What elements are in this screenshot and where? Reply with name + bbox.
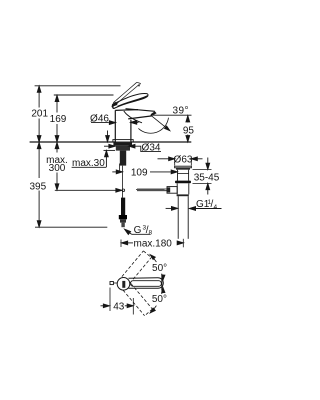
svg-text:95: 95 [183,126,195,137]
extension line top of raised lever (201) [35,85,121,87]
svg-text:Ø34: Ø34 [142,143,161,154]
dim 43 [109,288,111,312]
top view: blade inner contour [131,281,162,287]
50 degree arc upper [150,255,163,281]
lever rotation arc arrow [112,103,118,106]
39-degree arc [138,118,168,134]
50 degree arc lower [150,287,163,313]
dim Ø34 arrows [104,145,110,147]
supply axis line [121,166,123,198]
deck underside line [104,149,116,151]
hose collar [120,219,126,222]
faucet body side view [114,110,116,142]
waste tailpipe [177,196,179,239]
pop-up waste flange top [175,166,192,168]
flexible hose [121,198,125,215]
spout tip (dark) [151,111,157,116]
waste body [176,183,178,194]
svg-text:109: 109 [131,167,148,178]
spout top [126,109,155,112]
tailpipe axis extension [182,239,184,248]
mounting nut [116,146,130,151]
threaded shank [120,151,126,166]
bottom line of max.300 [55,189,120,191]
svg-text:395: 395 [29,181,46,192]
raised lever (thin outline) [113,82,137,103]
dim 109 [112,171,116,173]
svg-text:4: 4 [214,204,218,211]
junction arrow on 190 line [116,189,122,193]
svg-text:201: 201 [31,109,48,120]
pop-up rod lines [137,188,167,190]
neck curve [124,111,142,123]
waste O-ring [175,181,191,184]
dashed continuation of 190 line to drain rod [136,188,165,190]
svg-text:300: 300 [49,163,66,174]
top view: blade end face [161,276,163,291]
dim 35-45 [193,168,212,170]
39-degree reference line [151,114,192,116]
extension line top of lever at rest (169) [54,94,114,96]
dashed lever rotated +50 [122,251,152,316]
svg-text:G: G [134,225,142,236]
dimension line 201/395 at x=39 [38,86,40,107]
dim max.180 [120,240,122,248]
svg-text:50°: 50° [152,263,167,274]
svg-text:50°: 50° [152,294,167,305]
G3/8 leader [127,231,150,234]
dim 95 vertical [187,116,189,123]
max.30 arrow stems [107,131,109,136]
svg-text:Ø63: Ø63 [174,154,193,165]
lever handle at rest [112,93,148,108]
hose nut [119,215,127,219]
svg-text:39°: 39° [173,105,189,116]
top view: lever blade [129,278,164,289]
lever back hook [113,106,115,109]
top view: knob [117,278,130,291]
dashed lever rotated -50 [131,284,153,310]
waste side port [167,187,177,194]
svg-text:35-45: 35-45 [194,173,220,184]
bottom line of 395 (hose end) [35,226,107,228]
svg-text:max.180: max.180 [134,238,173,249]
svg-text:43: 43 [113,301,125,312]
spout underside [128,116,152,119]
dim G1 1/4 [166,207,172,209]
G3/8 thread stub [121,223,124,228]
mounting washer below deck [113,142,132,145]
svg-text:8: 8 [149,230,153,237]
top view: lever back stub [110,282,113,285]
deck / counter line [30,141,116,143]
dim Ø46 arrows [108,122,110,124]
waste bottom rim [177,194,189,196]
dimension line 169/max300 at x=57 [56,96,58,113]
arrowheads [37,86,41,92]
waste neck [177,170,179,181]
dim Ø63 extension lines [174,157,176,165]
svg-text:169: 169 [50,114,67,125]
39-degree stream ray [151,115,170,130]
